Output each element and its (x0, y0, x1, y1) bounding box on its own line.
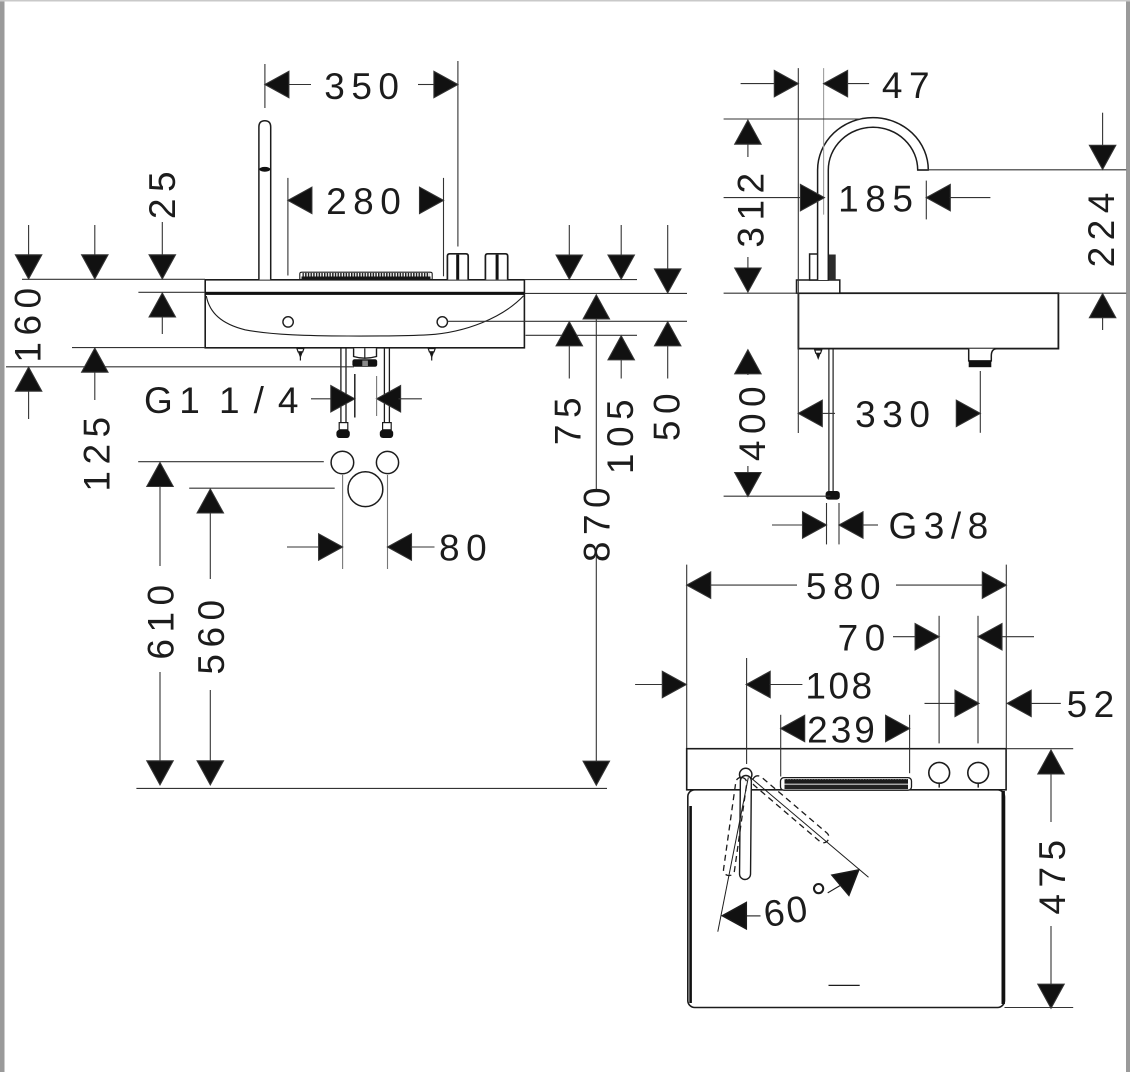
svg-text:330: 330 (855, 394, 936, 435)
svg-text:1/4: 1/4 (219, 380, 312, 421)
degree symbol (814, 884, 823, 893)
svg-text:60: 60 (761, 887, 813, 935)
svg-text:239: 239 (807, 709, 878, 750)
svg-text:350: 350 (324, 66, 405, 107)
dim G3/8 arrows (772, 512, 878, 538)
drain stub (side) (969, 349, 997, 367)
dim 330 ext line (drain center) (979, 371, 981, 433)
drain bottom extension line (6, 366, 354, 368)
svg-text:312: 312 (731, 166, 772, 247)
dim 75 arrows (556, 225, 582, 379)
deck top extension line left (22, 278, 205, 280)
svg-text:475: 475 (1032, 833, 1073, 914)
overflow leader line right (448, 320, 688, 322)
dim 70 arrows (893, 624, 1034, 650)
lever solid position (739, 775, 751, 879)
svg-text:52: 52 (1067, 684, 1121, 725)
dim 52 arrows (925, 690, 1061, 716)
faucet hole top view (740, 768, 752, 780)
mounting screw (side) (815, 350, 822, 358)
siphon circle small left (331, 451, 354, 474)
deck front thick edge line (205, 292, 524, 295)
dim 560 arrows (197, 489, 223, 785)
dim 280 arrows (288, 187, 444, 213)
drain grille top view (781, 778, 912, 791)
hose connector left (336, 423, 349, 438)
dim 50 arrows (655, 225, 681, 379)
dim 560 leader line (189, 487, 335, 489)
bowl right shadow (1002, 791, 1005, 1004)
dim 25 arrows (149, 222, 175, 334)
dim G1 1/4 arrows (311, 374, 422, 418)
dim 160 arrows (15, 225, 41, 419)
svg-text:G3/8: G3/8 (889, 506, 995, 547)
temperature knob 2 (485, 254, 507, 280)
dim 610 arrows (147, 463, 173, 785)
svg-text:75: 75 (547, 391, 588, 445)
deck top extension left (side view) (724, 292, 799, 294)
svg-text:47: 47 (882, 65, 936, 106)
svg-text:125: 125 (77, 410, 118, 491)
svg-text:25: 25 (142, 165, 183, 219)
cartridge dark part (829, 255, 836, 281)
bowl bottom leader line right (526, 334, 638, 336)
page frame: left gray bar (0, 0, 5, 1072)
angle ray 60 (751, 778, 869, 878)
supply hose (side) (829, 349, 833, 491)
angle arrow upright (828, 860, 868, 896)
mounting screw right (front) (428, 349, 435, 361)
joystick handle stick (259, 121, 271, 280)
temperature knob 1 (447, 254, 468, 280)
svg-text:70: 70 (838, 618, 892, 659)
bottom center mark (829, 984, 860, 986)
svg-text:560: 560 (191, 593, 232, 674)
dim 70 ext lines (938, 616, 940, 744)
svg-text:185: 185 (838, 179, 919, 220)
faucet top extension line (724, 118, 862, 120)
angle arrow left (722, 903, 760, 929)
lever dashed 60deg position (750, 774, 831, 845)
spout (side) (818, 118, 929, 280)
dim 239 arrows (781, 715, 910, 741)
svg-text:105: 105 (600, 393, 641, 474)
svg-text:80: 80 (439, 528, 493, 569)
supply pipe right (front) (384, 349, 389, 423)
dim 108 arrows (635, 671, 802, 697)
mounting screw left (front) (297, 349, 304, 361)
knob hole 1 top view (929, 762, 950, 787)
spout outlet cut (918, 169, 929, 171)
dim 185 ext line (925, 181, 927, 220)
bowl outline top view (688, 790, 1005, 1008)
dim 610 leader line (138, 461, 324, 463)
svg-text:50: 50 (647, 387, 688, 441)
deck strip top view (687, 749, 1006, 790)
drain tailpiece white body (354, 348, 377, 358)
angle ray steep (718, 778, 749, 932)
dim 870 arrows (583, 295, 609, 785)
svg-text:G1: G1 (144, 380, 206, 421)
svg-text:108: 108 (805, 666, 874, 707)
dim 280 extension lines (287, 178, 289, 276)
dim 400 arrows (735, 350, 761, 497)
dim 105 arrows (608, 225, 634, 379)
svg-text:580: 580 (806, 566, 887, 607)
dim G3/8 ext lines (826, 503, 828, 544)
dim 330 arrows (798, 400, 980, 426)
page frame: top light line (0, 0, 1130, 2)
hose end reference line (724, 495, 831, 497)
dim 475 arrows (1038, 750, 1064, 1008)
supply pipe left (front) (341, 349, 346, 423)
dim 47 arrows (741, 70, 870, 96)
svg-text:280: 280 (326, 181, 407, 222)
lever dashed left position (723, 777, 748, 877)
cartridge sleeve (810, 254, 829, 280)
drain tailpiece dark nut (352, 359, 377, 367)
dim 80 ext lines (342, 475, 344, 569)
overflow hole left (283, 317, 293, 327)
knob hole 2 top view (968, 762, 989, 787)
spout outlet extension line (928, 169, 1127, 171)
deck top ext right (bottom view) (1006, 748, 1073, 750)
bowl left shadow (689, 806, 692, 1003)
deck top extension right (side view) (1058, 292, 1126, 294)
handle dark band (259, 167, 270, 172)
bowl interior curve (206, 296, 523, 336)
dim 350 extension lines (264, 64, 266, 108)
svg-text:400: 400 (732, 380, 773, 461)
hose connector right (380, 423, 393, 438)
dim 239 ext lines (780, 715, 782, 777)
dim 580 arrows (687, 572, 1007, 598)
svg-text:870: 870 (577, 481, 618, 562)
svg-text:160: 160 (8, 281, 49, 362)
hose connector (side) (826, 491, 840, 500)
drain grille strip (front) (300, 272, 432, 279)
dim 125 arrows (82, 225, 108, 400)
page frame: right gray bar (1126, 0, 1130, 1072)
dim 350 line+arrows (265, 71, 458, 97)
dim 185 arrows (724, 184, 991, 210)
deck bottom extension line left (138, 291, 205, 293)
overflow hole right (437, 317, 447, 327)
escutcheon base plate (797, 280, 840, 293)
deck bottom extension line right (525, 292, 688, 294)
dim 580 ext lines (686, 565, 688, 748)
floor reference line (136, 787, 607, 789)
deck top extension line right (525, 279, 638, 281)
bowl bottom ext right (1005, 1007, 1074, 1009)
svg-text:224: 224 (1081, 186, 1122, 267)
siphon circle large (348, 472, 383, 507)
dim 312 arrows (735, 120, 761, 292)
dim 224 arrows (1089, 113, 1115, 330)
dim 47 ext line 1 (long) (797, 68, 799, 433)
dim 47 ext line 2 (through pipe) (823, 68, 825, 215)
svg-text:610: 610 (141, 578, 182, 659)
siphon circle small right (376, 451, 398, 473)
basin bottom extension line left (72, 347, 205, 349)
basin deck slab front view (205, 280, 524, 348)
deck slab side view (798, 293, 1058, 348)
dim 108 ext line (faucet center) (746, 658, 748, 764)
dim 80 arrows (287, 534, 435, 560)
